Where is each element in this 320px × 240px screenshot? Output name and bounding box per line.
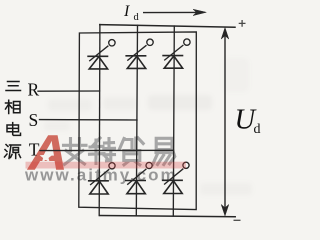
svg-text:S: S <box>29 110 39 130</box>
svg-text:d: d <box>254 122 261 137</box>
svg-text:d: d <box>134 12 140 23</box>
svg-text:T: T <box>29 139 40 159</box>
svg-text:I: I <box>123 3 130 20</box>
svg-text:R: R <box>28 80 40 100</box>
